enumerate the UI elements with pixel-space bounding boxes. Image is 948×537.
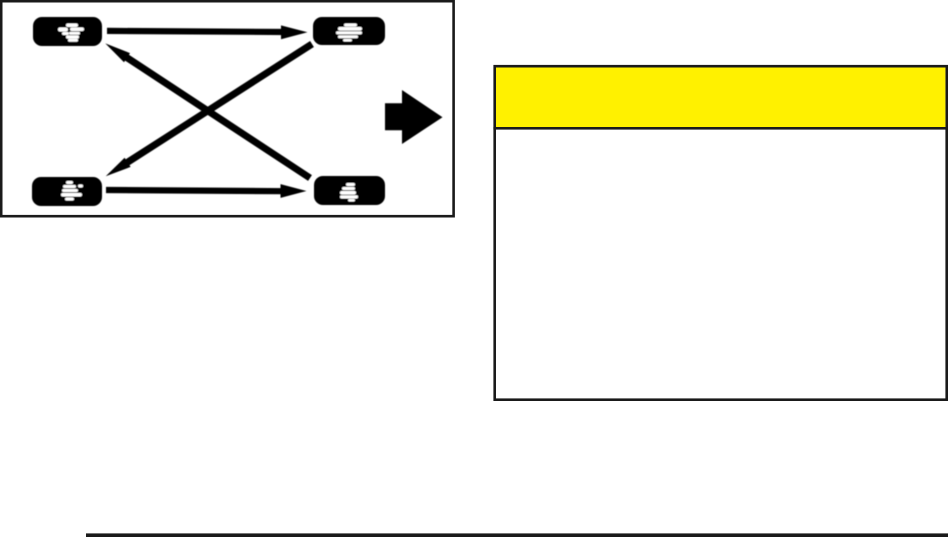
notice box header divider (493, 127, 948, 130)
notice box yellow header band (496, 68, 945, 128)
tire right-rear (bottom-right) (314, 176, 385, 205)
arrow rear-left to rear-right (bottom horizontal) (106, 184, 307, 198)
tire right-front tread marks (336, 24, 362, 42)
arrow front-right to rear-left (diagonal down-left) (106, 44, 312, 176)
arrow front-left to front-right (top horizontal) (107, 25, 308, 39)
arrow rear-right to front-left (diagonal up-left) (105, 43, 310, 178)
tire right-rear tread marks (340, 183, 358, 202)
tire left-front (top-left) (33, 17, 102, 46)
tire left-rear tread marks (61, 181, 83, 201)
block arrow pointing right (385, 90, 443, 144)
page footer rule (86, 533, 948, 537)
tire left-rear (bottom-left) (32, 177, 102, 206)
tire rotation diagram frame (1, 1, 453, 216)
tire right-front (top-right) (313, 17, 385, 45)
tire left-front tread marks (58, 24, 84, 42)
notice box frame (495, 66, 947, 400)
